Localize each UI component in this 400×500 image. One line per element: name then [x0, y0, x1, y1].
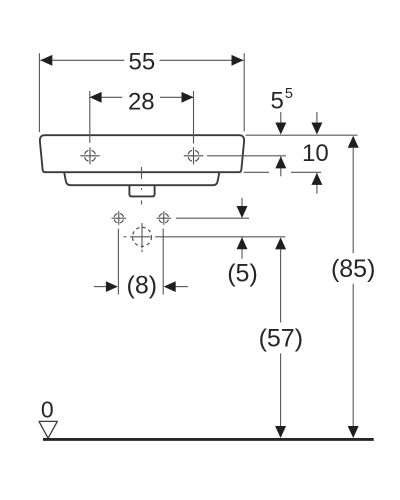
datum triangle symbol — [39, 421, 57, 438]
svg-text:55: 55 — [129, 48, 156, 75]
floor line — [43, 438, 374, 441]
svg-text:10: 10 — [302, 140, 329, 167]
drain hole: crosshair — [124, 223, 151, 252]
svg-text:(57): (57) — [259, 325, 303, 353]
dimension (85): arrows — [348, 136, 359, 438]
dimension 28: arrows — [90, 92, 194, 103]
fixing hole left: crosshair — [112, 211, 127, 225]
fixing hole left: dashed circle — [114, 214, 123, 223]
dimension (8): arrows and tails — [94, 286, 188, 288]
washbasin rim outline — [40, 135, 244, 172]
fixing hole right: dashed circle — [159, 214, 168, 223]
centerline of basin (dash-dot) — [141, 167, 143, 205]
svg-text:28: 28 — [128, 89, 155, 116]
svg-text:5: 5 — [285, 86, 293, 102]
svg-text:(5): (5) — [227, 260, 258, 288]
svg-text:(85): (85) — [331, 255, 375, 283]
leader from drain hole — [155, 236, 285, 238]
tap hole right: dashed circle — [188, 150, 199, 161]
dimension 55: extension lines — [39, 53, 244, 132]
dimension (85): vertical line — [352, 148, 354, 427]
dimension 10: arrows and tails — [316, 112, 318, 194]
dimension (5): arrows and tails — [241, 198, 243, 259]
fixing hole right: crosshair — [157, 211, 172, 225]
dimension 5^5: arrows and tails — [280, 112, 282, 176]
dimension 55: line — [40, 59, 243, 61]
tap hole left: dashed circle — [85, 150, 96, 161]
dimension (57): arrows — [275, 237, 286, 438]
leader from right fixing hole — [176, 217, 249, 219]
leader from right tap hole — [207, 155, 286, 157]
dimension 55: arrows — [40, 55, 243, 66]
dimension 28: line — [90, 96, 194, 98]
dimension (57): vertical line — [280, 249, 282, 426]
extension line from rim top to the right — [246, 134, 358, 136]
drain hole: dashed circle — [133, 227, 152, 246]
dimension (8): extension lines — [118, 229, 163, 295]
svg-text:0: 0 — [41, 396, 54, 422]
tap hole left: crosshair — [80, 147, 99, 164]
dimension 28: extension lines — [90, 91, 194, 144]
extension line from ledge line to the right (two segments) — [244, 171, 321, 173]
svg-text:5: 5 — [271, 88, 284, 115]
washbasin lower ledge — [64, 173, 219, 186]
svg-text:(8): (8) — [127, 272, 158, 300]
tap hole right: crosshair — [184, 147, 203, 164]
drain fitting box — [129, 186, 154, 197]
